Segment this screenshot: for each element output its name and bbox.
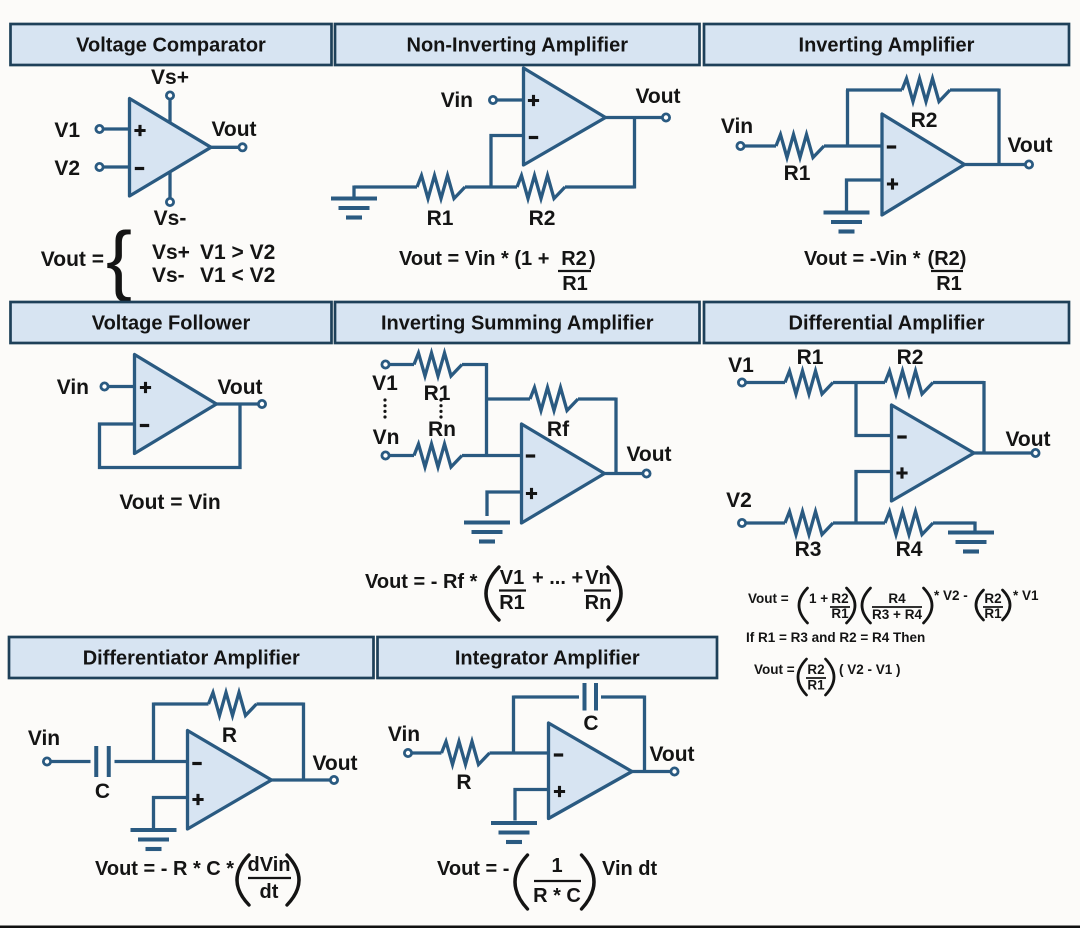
svg-text:Vout: Vout: [217, 376, 262, 399]
wire feedback top right: [601, 695, 645, 698]
wire U4 output: [217, 402, 259, 405]
svg-text:R2: R2: [984, 591, 1001, 606]
U7 - input mark: [192, 762, 201, 765]
wire feedback vertical: [633, 118, 636, 189]
svg-text:R3: R3: [795, 538, 822, 561]
wire + input to ground: [847, 180, 883, 211]
op-amp U5: [522, 424, 605, 523]
wire Rf to output branch: [578, 397, 616, 400]
svg-text:Vout = Vin: Vout = Vin: [119, 491, 220, 514]
U7 + input mark: [192, 794, 203, 805]
terminal Vin: [404, 749, 411, 756]
wire feedback top right: [257, 702, 304, 705]
wire R2 to output branch: [565, 185, 635, 188]
svg-text:Vout: Vout: [1007, 134, 1052, 157]
terminal Vn: [382, 452, 389, 459]
wire + input to ground: [154, 798, 188, 829]
terminal Vin: [737, 142, 744, 149]
wire feedback left vertical: [152, 703, 155, 762]
svg-text:Vout: Vout: [1005, 428, 1050, 451]
svg-text:R: R: [222, 724, 237, 747]
svg-text:Vout = -Vin *: Vout = -Vin *: [804, 248, 921, 270]
svg-text:): ): [589, 248, 596, 270]
svg-text:R3 + R4: R3 + R4: [872, 607, 922, 622]
U8 - input mark: [554, 753, 563, 756]
resistor R: [442, 742, 490, 765]
terminal Vout: [239, 144, 246, 151]
title box: Differential Amplifier: [704, 302, 1069, 343]
svg-text:Vin: Vin: [28, 727, 60, 750]
wire R1 to - input: [824, 144, 882, 147]
terminal Vout: [330, 776, 337, 783]
terminal V1: [382, 361, 389, 368]
U6 + input mark: [896, 467, 907, 478]
ground: [491, 821, 537, 825]
op-amp U3: [882, 114, 965, 215]
svg-text:* V1: * V1: [1013, 588, 1039, 603]
wire R2 to output branch: [933, 381, 984, 384]
terminal Vout: [662, 114, 669, 121]
terminal V1: [738, 379, 745, 386]
svg-text:Vout =: Vout =: [41, 248, 104, 271]
terminal Vin: [43, 758, 50, 765]
wire V1 to R1: [389, 363, 414, 366]
svg-text:Vin: Vin: [441, 89, 473, 112]
svg-text:Vout: Vout: [211, 118, 256, 141]
svg-text:Integrator Amplifier: Integrator Amplifier: [455, 648, 640, 670]
resistor R2: [885, 371, 933, 394]
svg-text:V1: V1: [372, 372, 398, 395]
svg-text:R1: R1: [499, 592, 525, 614]
U2 + input mark: [528, 95, 539, 106]
wire V1 to U1: [103, 127, 130, 130]
title box: Differentiator Amplifier: [9, 637, 374, 678]
svg-text:Vout =: Vout =: [748, 591, 789, 606]
svg-text:R1: R1: [831, 606, 849, 621]
wire to ground: [352, 186, 355, 198]
svg-text:Voltage Comparator: Voltage Comparator: [76, 35, 266, 57]
ground: [948, 530, 994, 534]
wire U3 output: [965, 163, 1026, 166]
U8 + input mark: [554, 786, 565, 797]
resistor R1: [417, 176, 465, 199]
wire U6 output: [974, 451, 1032, 454]
wire feedback right vertical: [643, 696, 646, 772]
resistor R1: [414, 353, 462, 376]
svg-text:dt: dt: [260, 881, 279, 903]
wire C to - input: [115, 760, 188, 763]
bottom border line: [0, 926, 1080, 928]
wire R1 to junction: [833, 381, 885, 384]
svg-text:Vin: Vin: [57, 376, 89, 399]
svg-text:Vout: Vout: [312, 752, 357, 775]
svg-text:Vout: Vout: [635, 85, 680, 108]
svg-text:Vout = Vin * (1 +: Vout = Vin * (1 +: [399, 248, 549, 270]
resistor R1: [776, 135, 824, 158]
svg-text:Vout = - Rf *: Vout = - Rf *: [365, 571, 478, 593]
op-amp U7: [188, 731, 272, 830]
wire R1 to junction: [462, 363, 487, 366]
op-amp U2: [524, 68, 606, 165]
title box: Inverting Summing Amplifier: [335, 302, 700, 343]
svg-text:Voltage Follower: Voltage Follower: [92, 313, 251, 335]
svg-text:R2: R2: [897, 346, 924, 369]
svg-text:V2: V2: [54, 157, 80, 180]
svg-text:+ ... +: + ... +: [532, 567, 583, 589]
wire Vs- from op-amp: [168, 171, 171, 198]
wire Vin to R1: [744, 144, 776, 147]
op-amp U1: [130, 99, 212, 197]
svg-text:Inverting Amplifier: Inverting Amplifier: [799, 35, 975, 57]
U4 + input mark: [140, 382, 151, 393]
wire R1 to R2 junction: [465, 185, 517, 188]
svg-text:R1: R1: [797, 346, 824, 369]
wire to R2: [846, 88, 902, 91]
resistor R1: [785, 371, 833, 394]
svg-text:V1: V1: [500, 567, 524, 589]
wire V2 to U1: [103, 165, 130, 168]
resistor R2: [517, 176, 565, 199]
svg-text:Vout: Vout: [649, 743, 694, 766]
capacitor C: [94, 746, 98, 777]
svg-text:Vs-: Vs-: [154, 207, 187, 230]
wire Vin to U4: [108, 385, 135, 388]
wire - input feedback: [491, 136, 524, 188]
wire Vin to R: [412, 751, 442, 754]
resistor Rn: [414, 444, 462, 467]
wire - junction to U6: [856, 383, 892, 436]
wire U1 output: [211, 146, 239, 149]
resistor Rf: [530, 388, 578, 411]
ground: [824, 210, 870, 214]
svg-text:Differential Amplifier: Differential Amplifier: [789, 313, 985, 335]
svg-text:Vn: Vn: [373, 426, 400, 449]
dots between V1 and Vn: [383, 398, 386, 401]
U3 - input mark: [887, 145, 896, 148]
wire U7 output: [272, 778, 331, 781]
U4 - input mark: [140, 424, 149, 427]
terminal Vout: [671, 768, 678, 775]
wire Vs+ to op-amp: [168, 99, 171, 123]
wire Vn to Rn: [389, 454, 414, 457]
svg-text:R2: R2: [807, 662, 824, 677]
svg-text:R1: R1: [424, 382, 451, 405]
wire feedback vertical: [614, 398, 617, 474]
svg-text:(R2): (R2): [928, 248, 967, 270]
svg-text:R1: R1: [984, 606, 1002, 621]
wire R2 to output branch: [950, 88, 999, 91]
wire R to - input: [490, 751, 549, 754]
svg-text:Vs+: Vs+: [152, 241, 190, 264]
svg-text:Vs+: Vs+: [151, 66, 189, 89]
terminal V2: [96, 163, 103, 170]
svg-text:Inverting Summing Amplifier: Inverting Summing Amplifier: [381, 313, 654, 335]
title box: Non-Inverting Amplifier: [335, 24, 700, 65]
svg-text:R1: R1: [807, 678, 825, 693]
svg-text:Differentiator Amplifier: Differentiator Amplifier: [83, 648, 300, 670]
wire R3 to junction: [833, 521, 885, 524]
U3 + input mark: [887, 178, 898, 189]
svg-text:Vin dt: Vin dt: [602, 858, 658, 880]
wire ground stub: [973, 522, 976, 532]
title box: Voltage Follower: [11, 302, 332, 343]
ground: [331, 196, 377, 200]
terminal Vout: [258, 400, 265, 407]
wire U8 output: [632, 770, 671, 773]
terminal Vin: [489, 96, 496, 103]
wire Vin to U2: [497, 98, 524, 101]
terminal Vout: [643, 470, 650, 477]
terminal V1: [96, 125, 103, 132]
wire junction to Rf: [487, 397, 531, 400]
svg-text:R1: R1: [427, 207, 454, 230]
terminal V2: [738, 519, 745, 526]
svg-text:dVin: dVin: [248, 854, 291, 876]
wire junction up to R2: [846, 90, 849, 146]
svg-text:R2: R2: [529, 207, 556, 230]
op-amp U6: [892, 405, 975, 501]
svg-text:Rf: Rf: [547, 418, 570, 441]
svg-text:1 +: 1 +: [809, 591, 828, 606]
wire input junction vertical: [485, 363, 488, 457]
wire R4 to ground: [933, 521, 975, 524]
svg-text:R2: R2: [831, 591, 848, 606]
wire feedback top left: [154, 702, 209, 705]
svg-text:R: R: [456, 771, 471, 794]
wire U2 output: [606, 116, 663, 119]
resistor R2: [902, 79, 950, 102]
svg-text:Vs-: Vs-: [152, 264, 185, 287]
wire feedback top left: [514, 695, 580, 698]
svg-text:V1 > V2: V1 > V2: [200, 241, 275, 264]
wire feedback loop: [100, 404, 241, 468]
wire feedback left vertical: [512, 696, 515, 754]
terminal Vout: [1025, 161, 1032, 168]
svg-text:1: 1: [551, 855, 562, 877]
wire + junction to U6: [856, 472, 892, 524]
svg-text:Vout =: Vout =: [754, 662, 795, 677]
dots between R1 and Rn: [439, 398, 442, 401]
svg-text:V2: V2: [726, 489, 752, 512]
svg-text:{: {: [106, 215, 132, 303]
wire + input to ground: [515, 790, 549, 821]
svg-text:R1: R1: [936, 273, 962, 295]
svg-text:Non-Inverting Amplifier: Non-Inverting Amplifier: [407, 35, 629, 57]
ground: [131, 828, 177, 832]
svg-text:R4: R4: [888, 591, 906, 606]
svg-text:R2: R2: [911, 109, 938, 132]
op-amp U4: [135, 355, 217, 454]
svg-text:Vout = - R * C *: Vout = - R * C *: [95, 858, 234, 880]
wire Rn to - input: [462, 454, 522, 457]
svg-text:Vin: Vin: [721, 115, 753, 138]
wire U5 output: [605, 472, 643, 475]
ground: [464, 520, 510, 524]
wire ground to R1: [354, 185, 417, 188]
svg-text:R1: R1: [562, 273, 588, 295]
title box: Integrator Amplifier: [378, 637, 718, 678]
wire V1 to R1: [746, 381, 785, 384]
U5 + input mark: [526, 488, 537, 499]
wire V2 to R3: [746, 521, 785, 524]
op-amp U8: [549, 723, 633, 819]
terminal Vs+: [166, 92, 173, 99]
U1 - input mark: [135, 167, 144, 170]
svg-text:C: C: [583, 712, 598, 735]
wire feedback vertical: [982, 381, 985, 453]
resistor R4: [885, 512, 933, 535]
U2 - input mark: [529, 136, 538, 139]
svg-text:C: C: [95, 780, 110, 803]
U1 + input mark: [134, 125, 145, 136]
U6 - input mark: [897, 435, 906, 438]
svg-text:Rn: Rn: [585, 592, 612, 614]
svg-text:Vout: Vout: [626, 443, 671, 466]
svg-text:R * C: R * C: [533, 885, 581, 907]
terminal Vout: [1032, 449, 1039, 456]
wire Vin to C: [51, 760, 91, 763]
svg-text:Vin: Vin: [388, 723, 420, 746]
U5 - input mark: [526, 454, 535, 457]
terminal Vs-: [166, 198, 173, 205]
svg-text:V1 < V2: V1 < V2: [200, 264, 275, 287]
svg-text:R2: R2: [561, 248, 587, 270]
svg-text:* V2 -: * V2 -: [934, 588, 968, 603]
svg-text:V1: V1: [728, 354, 754, 377]
svg-text:R4: R4: [896, 538, 923, 561]
resistor R3: [785, 512, 833, 535]
svg-text:Vn: Vn: [585, 567, 611, 589]
svg-text:( V2 - V1 ): ( V2 - V1 ): [839, 662, 901, 677]
terminal Vin: [101, 383, 108, 390]
wire feedback vertical: [997, 89, 1000, 165]
svg-text:Rn: Rn: [428, 418, 456, 441]
wire feedback right vertical: [302, 703, 305, 781]
svg-text:If R1 = R3 and R2 = R4 Then: If R1 = R3 and R2 = R4 Then: [746, 630, 925, 645]
title box: Inverting Amplifier: [704, 24, 1069, 65]
svg-text:Vout = -: Vout = -: [437, 858, 509, 880]
wire + input to ground: [487, 492, 522, 516]
svg-text:R1: R1: [784, 162, 811, 185]
capacitor C: [583, 683, 587, 711]
svg-text:V1: V1: [54, 119, 80, 142]
resistor R: [209, 693, 257, 716]
title box: Voltage Comparator: [11, 24, 332, 65]
